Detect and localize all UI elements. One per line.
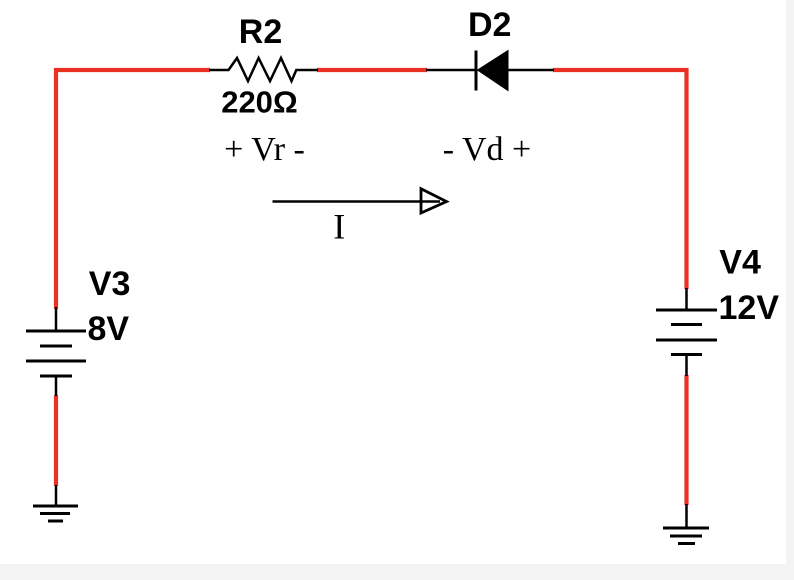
svg-text:8V: 8V [88, 310, 130, 348]
wire: V4 to right ground (red) [684, 375, 688, 505]
svg-text:220Ω: 220Ω [221, 85, 298, 120]
resistor R2 [209, 58, 318, 81]
diode D2 [426, 51, 554, 91]
svg-text:V3: V3 [89, 265, 131, 303]
battery V3 [26, 307, 86, 396]
wire: diode to top-right corner + right vertical (red) [553, 70, 687, 289]
wire: top-left horizontal + left vertical (red) [56, 70, 210, 309]
svg-text:R2: R2 [239, 13, 282, 51]
svg-text:12V: 12V [719, 289, 780, 327]
wire: V3 to left ground (red) [54, 395, 58, 486]
svg-text:V4: V4 [719, 244, 761, 282]
wire: between resistor and diode (red) [317, 68, 427, 72]
current arrow [273, 189, 447, 213]
svg-text:I: I [333, 207, 345, 247]
svg-text:+ Vr -: + Vr - [224, 131, 305, 168]
ground (left) [33, 485, 78, 521]
battery V4 [656, 288, 717, 376]
svg-text:D2: D2 [468, 6, 511, 44]
svg-text:- Vd +: - Vd + [443, 131, 531, 168]
ground (right) [663, 504, 709, 544]
